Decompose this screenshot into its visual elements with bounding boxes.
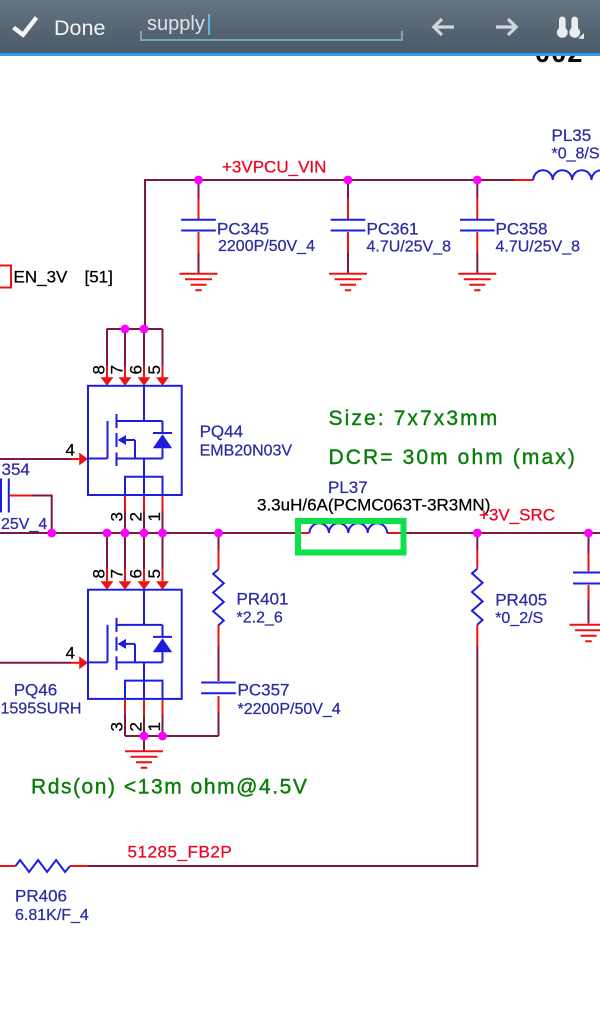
svg-text:6.81K/F_4: 6.81K/F_4	[15, 907, 89, 924]
svg-text:4: 4	[66, 441, 75, 460]
svg-text:*2200P/50V_4: *2200P/50V_4	[238, 701, 341, 718]
svg-text:1: 1	[145, 512, 164, 521]
svg-text:4.7U/25V_8: 4.7U/25V_8	[367, 239, 452, 256]
svg-text:PR401: PR401	[237, 590, 289, 609]
svg-text:PC357: PC357	[238, 681, 290, 700]
svg-text:25V_4: 25V_4	[1, 516, 47, 533]
svg-text:EN_3V: EN_3V	[14, 268, 69, 287]
svg-text:2: 2	[127, 722, 146, 731]
svg-text:PC345: PC345	[217, 220, 269, 239]
svg-text:PQ44: PQ44	[200, 422, 243, 441]
svg-text:[51]: [51]	[85, 268, 113, 287]
svg-text:PC361: PC361	[367, 220, 419, 239]
svg-text:+3VPCU_VIN: +3VPCU_VIN	[222, 158, 326, 177]
svg-text:PR405: PR405	[495, 591, 547, 610]
svg-text:PR406: PR406	[15, 887, 67, 906]
svg-text:PL35: PL35	[552, 126, 592, 145]
svg-text:2200P/50V_4: 2200P/50V_4	[218, 238, 315, 255]
svg-text:3.3uH/6A(PCMC063T-3R3MN): 3.3uH/6A(PCMC063T-3R3MN)	[257, 496, 490, 515]
svg-text:8: 8	[90, 569, 109, 578]
svg-text:8: 8	[90, 365, 109, 374]
svg-text:EMB20N03V: EMB20N03V	[200, 443, 293, 460]
svg-text:354: 354	[2, 460, 30, 479]
svg-text:*0_2/S: *0_2/S	[495, 610, 543, 627]
svg-text:PQ46: PQ46	[14, 681, 57, 700]
svg-text:1595SURH: 1595SURH	[1, 701, 82, 718]
svg-text:1: 1	[145, 722, 164, 731]
svg-text:2: 2	[127, 512, 146, 521]
svg-text:6: 6	[127, 569, 146, 578]
svg-text:*2.2_6: *2.2_6	[237, 610, 283, 627]
svg-text:PC358: PC358	[496, 220, 548, 239]
svg-text:PL37: PL37	[328, 478, 368, 497]
svg-text:*0_8/S: *0_8/S	[552, 146, 600, 163]
svg-text:5: 5	[145, 365, 164, 374]
svg-text:+3V_SRC: +3V_SRC	[479, 506, 555, 525]
svg-text:5: 5	[145, 569, 164, 578]
svg-text:7: 7	[108, 365, 127, 374]
svg-text:3: 3	[108, 512, 127, 521]
svg-text:51285_FB2P: 51285_FB2P	[128, 843, 233, 862]
svg-text:Rds(on) <13m ohm@4.5V: Rds(on) <13m ohm@4.5V	[31, 776, 308, 799]
svg-text:4: 4	[66, 644, 75, 663]
svg-text:7: 7	[108, 569, 127, 578]
svg-text:4.7U/25V_8: 4.7U/25V_8	[496, 239, 581, 256]
svg-text:3: 3	[108, 722, 127, 731]
svg-text:6: 6	[127, 365, 146, 374]
svg-text:DCR= 30m ohm (max): DCR= 30m ohm (max)	[329, 446, 577, 469]
svg-text:Size: 7x7x3mm: Size: 7x7x3mm	[329, 407, 500, 430]
